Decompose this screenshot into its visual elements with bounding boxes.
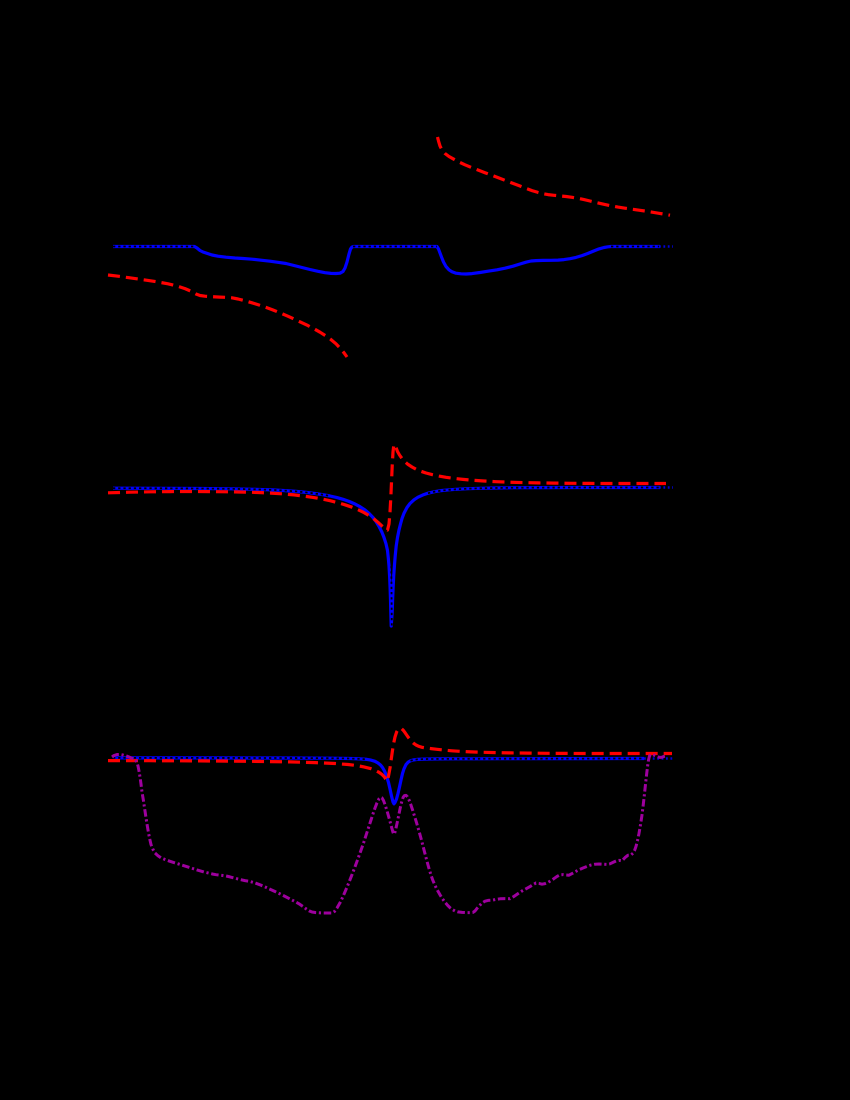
middle panel black dotted overlay spike: [390, 566, 393, 626]
top panel black dotted overlay right flat: [611, 246, 660, 248]
top panel red dashed curve right branch: [438, 137, 671, 215]
bottom panel purple dash-dot curve: [112, 754, 668, 913]
bottom panel blue solid curve: [113, 758, 644, 804]
top panel red dashed curve left branch: [108, 275, 347, 357]
top panel black dotted overlay middle flat: [353, 246, 437, 248]
bottom panel black dotted overlay right flat: [411, 759, 645, 761]
middle panel blue solid curve: [113, 488, 660, 627]
bottom panel black dotted overlay left flat: [113, 758, 367, 760]
middle panel black dotted overlay right flat: [428, 488, 660, 494]
middle panel black dotted overlay left flat: [113, 488, 330, 496]
top panel blue dotted tail: [659, 245, 673, 247]
top panel black dotted overlay left flat: [113, 246, 195, 248]
bottom panel red dashed curve: [108, 728, 672, 781]
middle panel red dashed curve: [108, 445, 666, 531]
top panel blue solid curve: [113, 247, 660, 275]
bottom panel blue dotted tail: [644, 757, 673, 759]
middle panel blue dotted tail: [659, 486, 673, 488]
